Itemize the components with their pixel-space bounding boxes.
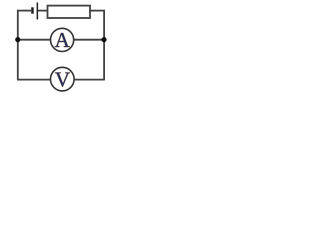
voltmeter U2 circle	[51, 67, 75, 91]
battery B1 long plate (positive)	[37, 3, 39, 20]
wire bottom-right (from voltmeter)	[74, 79, 105, 81]
wire middle-left (to ammeter)	[18, 39, 51, 41]
wire battery to resistor	[38, 10, 48, 12]
wire right vertical	[103, 10, 105, 80]
junction node right	[101, 37, 106, 42]
ammeter U1 circle	[51, 28, 74, 51]
wire left vertical	[17, 10, 19, 80]
svg-text:V: V	[55, 67, 70, 91]
wire bottom-left (to voltmeter)	[17, 79, 51, 81]
wire top-left horizontal	[17, 10, 31, 12]
wire resistor to top-right corner	[90, 10, 105, 12]
svg-text:A: A	[55, 28, 71, 52]
battery B1 short plate (negative)	[31, 7, 34, 13]
wire middle-right (from ammeter)	[74, 39, 104, 41]
junction node left	[15, 37, 20, 42]
resistor R1 (box)	[48, 6, 91, 18]
